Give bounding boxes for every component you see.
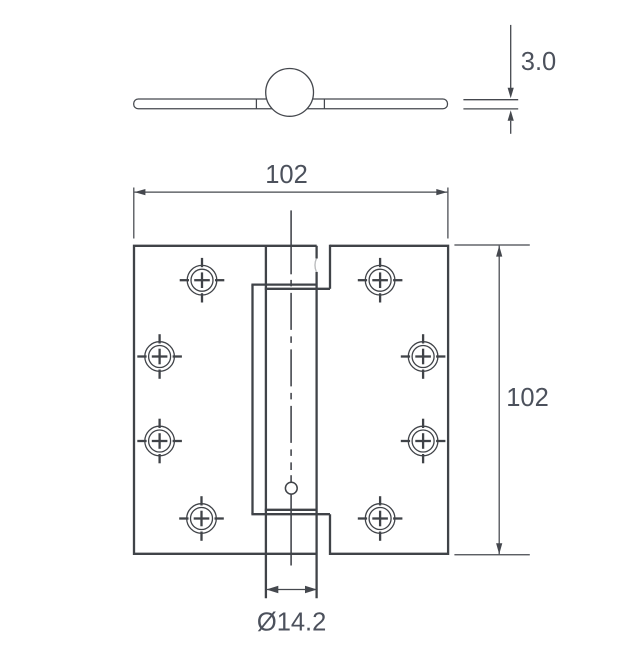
screw hole H8 bottom-right [358,496,403,541]
center line long dash lower [290,475,292,565]
spring adjustment hole [285,482,297,494]
svg-text:102: 102 [265,161,308,189]
svg-text:102: 102 [506,384,549,412]
screw hole H5 mid-left lower [137,419,182,464]
top dimension extension line right [447,188,449,239]
screw hole H1 top-left [180,258,225,303]
small relief arc on barrel edge [315,259,316,272]
knuckle circle [266,69,314,117]
tube bottom lip line lower [251,513,330,515]
top notch right side [329,245,331,289]
spring tube outer left edge [251,285,253,515]
thickness dim arrow upper [508,25,514,98]
thickness reference line lower [463,108,518,110]
right dimension line 102 [496,246,502,555]
plate divider left [255,99,257,109]
screw hole H6 mid-right lower [401,419,446,464]
barrel left edge / dim extension [265,246,267,598]
top dimension extension line left [133,188,135,239]
top dimension line 102 [134,189,447,195]
screw hole H3 mid-left upper [137,334,182,379]
tube top lip line lower [265,288,330,290]
hinge body right leaf outline [330,246,448,554]
bottom dimension line diameter 14.2 [266,586,317,594]
tube top lip line upper [251,283,316,285]
screw hole H7 bottom-left [179,496,224,541]
thickness dim arrow lower [508,110,514,134]
plate divider right [323,99,325,109]
svg-text:Ø14.2: Ø14.2 [257,609,326,637]
screw hole H4 mid-right upper [401,334,446,379]
svg-text:3.0: 3.0 [521,48,556,76]
thickness reference line upper [463,99,518,101]
center line long dash upper [290,210,292,274]
screw hole H2 top-right [358,258,403,303]
right dimension extension line top [454,244,529,246]
top view hinge plate [134,99,448,109]
center line (dash-dot) [290,280,292,470]
barrel right edge lower segment / dim extension [315,272,317,598]
tube bottom lip line upper [265,509,317,511]
right dimension extension line bottom [454,554,529,556]
hinge body left leaf outline [134,246,317,554]
barrel right edge upper segment [315,246,317,259]
